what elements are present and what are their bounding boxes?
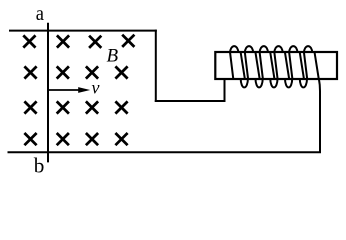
wire coil right lead bbox=[319, 79, 320, 152]
svg-text:B: B bbox=[107, 45, 119, 66]
conducting rod ab bbox=[47, 23, 49, 163]
wire step horizontal bbox=[155, 100, 226, 102]
inductor core rectangle bbox=[215, 52, 337, 79]
wire coil left lead bbox=[224, 79, 226, 102]
inductor coil right-side legs across core bbox=[241, 52, 319, 79]
svg-text:b: b bbox=[34, 154, 45, 178]
inductor coil top bumps (6 turns) bbox=[230, 46, 312, 53]
inductor coil left-side legs across core bbox=[230, 52, 307, 79]
svg-text:v: v bbox=[92, 78, 100, 98]
inductor coil bottom loops (5) bbox=[241, 79, 307, 88]
B-field cross symbols row 1 bbox=[23, 35, 134, 48]
wire right step down bbox=[155, 30, 157, 102]
wire bottom rail bbox=[8, 151, 322, 153]
velocity arrow bbox=[49, 89, 81, 91]
svg-text:a: a bbox=[36, 1, 45, 25]
B-field cross symbols row 4 bbox=[24, 133, 127, 145]
wire top rail bbox=[9, 30, 157, 32]
B-field cross symbols row 3 bbox=[24, 101, 127, 113]
B-field cross symbols row 2 bbox=[24, 66, 127, 78]
